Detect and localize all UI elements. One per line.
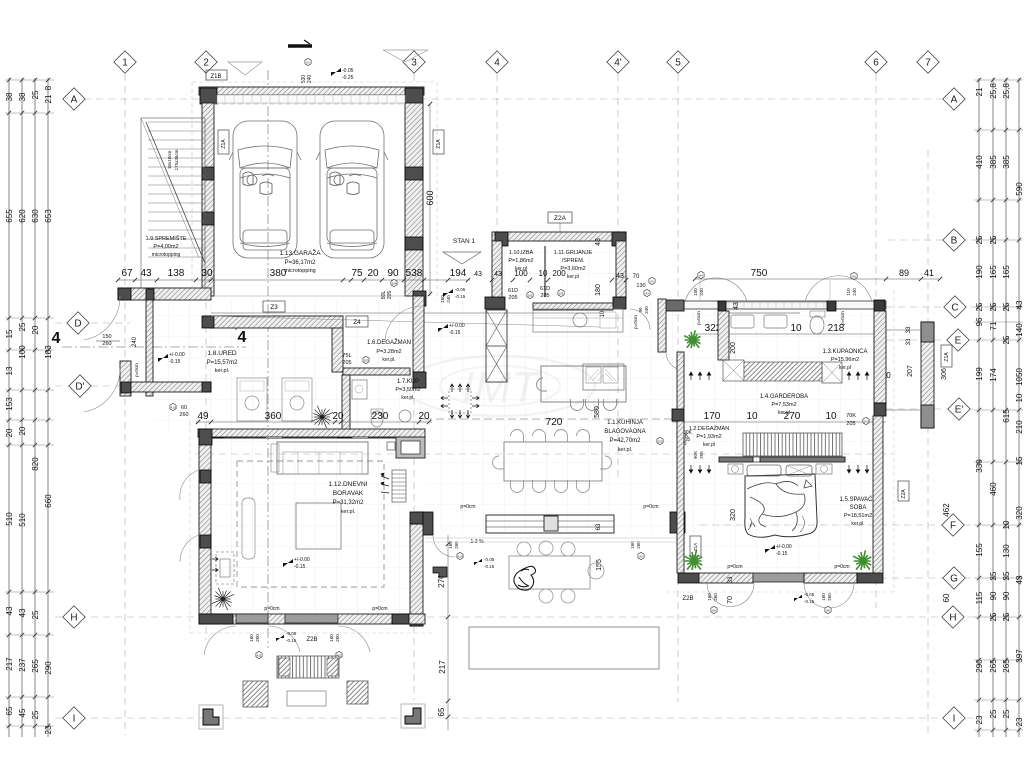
right dimension rail lines [978,78,980,737]
svg-text:20: 20 [5,428,14,437]
living south sills [236,614,268,623]
svg-text:10: 10 [746,411,758,422]
arrow burst symbol kitchen [449,389,471,413]
svg-text:90: 90 [638,307,643,313]
grid bubble B right [943,229,965,251]
svg-text:306: 306 [941,368,948,380]
hex A4 + dim [698,271,704,278]
svg-text:43: 43 [1015,575,1024,584]
svg-text:ker.pl.: ker.pl. [341,509,356,515]
svg-text:205: 205 [387,291,393,300]
svg-text:P=18,51m2: P=18,51m2 [844,513,872,519]
entry door arcs west [84,296,120,340]
garage top wall [199,87,424,95]
grid bubble I left [63,707,85,729]
right rail ticks [977,78,981,82]
pier kitchen SW [416,512,433,535]
svg-text:+/-0.00: +/-0.00 [169,352,185,358]
svg-text:20: 20 [18,426,27,435]
svg-text:460: 460 [989,482,998,496]
kitchen island [541,366,626,402]
svg-text:10: 10 [1015,393,1024,402]
svg-text:P=3,50m2: P=3,50m2 [395,387,420,393]
svg-text:43: 43 [733,302,740,310]
svg-text:160: 160 [329,634,334,642]
svg-text:Z4: Z4 [353,319,361,326]
svg-text:90: 90 [989,591,998,600]
svg-text:20: 20 [367,268,379,279]
svg-text:A8: A8 [826,608,830,612]
svg-text:I: I [73,714,76,725]
svg-text:+/-0.00: +/-0.00 [449,323,465,329]
svg-text:655: 655 [5,209,14,223]
svg-text:60: 60 [942,593,951,602]
svg-text:205: 205 [699,451,704,459]
svg-text:1050: 1050 [1015,368,1024,386]
west vertical wall upper [146,300,153,396]
grid bubble 5 [667,51,689,73]
svg-text:43: 43 [595,238,602,246]
svg-text:ker.pl: ker.pl [567,274,579,280]
grid bubble G right [943,567,965,589]
svg-text:SOBA: SOBA [850,505,867,511]
svg-text:I: I [953,714,956,725]
kitchen sink unit [583,364,624,390]
svg-text:1.3.KUPAONICA: 1.3.KUPAONICA [823,349,868,355]
svg-text:100: 100 [18,345,27,359]
label Z3 [263,301,285,312]
floor tiles ured wing [154,300,424,430]
svg-text:15: 15 [1015,456,1024,465]
svg-text:1.6.DEGAŽMAN: 1.6.DEGAŽMAN [367,338,411,346]
svg-text:160: 160 [821,593,826,601]
svg-text:270: 270 [784,411,801,422]
svg-text:630: 630 [31,209,40,223]
svg-text:A4: A4 [699,273,703,277]
svg-text:-0.05: -0.05 [286,631,297,636]
partition kup wall [343,368,410,375]
island stools bottom [571,399,584,411]
grid bubble 4 [486,51,508,73]
garage south wall [210,316,343,328]
door arc kitchen east [666,352,684,370]
dining chairs [511,430,524,442]
svg-text:240: 240 [132,336,138,347]
svg-text:38: 38 [5,92,14,101]
svg-text:61D: 61D [508,288,518,294]
scale bar mark [288,44,312,48]
desk 2 ured [282,378,312,421]
eave outline garage [192,81,437,83]
level flag living [283,559,293,567]
svg-text:237: 237 [18,658,27,672]
svg-text:202: 202 [657,439,662,443]
level flag ured [158,354,168,362]
svg-text:8: 8 [44,85,53,90]
svg-text:43: 43 [5,606,14,615]
svg-text:510: 510 [18,513,27,527]
svg-text:103: 103 [363,358,368,362]
svg-text:397: 397 [1015,649,1024,663]
svg-text:H: H [949,613,956,624]
svg-text:Z2B: Z2B [682,596,693,602]
svg-text:+/-0.00: +/-0.00 [776,544,792,550]
corner marker L left [199,705,223,729]
svg-text:-0.05: -0.05 [804,592,815,597]
wall below wardrobe [719,457,753,462]
svg-text:61D: 61D [540,286,550,292]
svg-text:4: 4 [494,58,500,69]
svg-text:410: 410 [975,155,984,169]
svg-text:660: 660 [44,494,53,508]
svg-text:130: 130 [1002,544,1011,558]
pier kitchen SE [670,512,685,533]
door arc terrace left [433,535,455,557]
level flag bedroom [765,545,775,553]
svg-text:D': D' [75,382,84,393]
arrow clusters vents [689,372,693,380]
svg-text:20: 20 [31,325,40,334]
ladder feature right [392,470,406,502]
svg-text:P=7,53m2: P=7,53m2 [771,402,796,408]
svg-text:25: 25 [31,710,40,719]
grid bubble E right [947,329,969,351]
svg-text:43: 43 [474,271,482,278]
svg-text:1.1.KUHINJA: 1.1.KUHINJA [607,420,643,426]
svg-text:Z3: Z3 [270,304,278,311]
stairs top-left [141,118,205,296]
svg-text:260: 260 [827,593,832,601]
garage top wall corner piers [200,88,217,104]
west entry south wall [131,382,211,392]
svg-text:-0.15: -0.15 [169,359,181,365]
svg-text:41: 41 [924,268,934,278]
svg-text:P=3,28m2: P=3,28m2 [376,349,401,355]
svg-text:380: 380 [270,268,287,279]
svg-text:P=4,00m2: P=4,00m2 [153,244,178,250]
dim row y=421 [196,421,432,423]
svg-text:265: 265 [31,659,40,673]
grid bubble E' right [948,398,970,420]
grid bubble H right [942,606,964,628]
outdoor chair left [243,681,268,707]
degazman wall vertical [677,352,684,409]
svg-text:199: 199 [975,367,984,381]
kup sink [399,410,411,422]
svg-text:microtopping: microtopping [152,252,181,258]
svg-text:ker.pl.: ker.pl. [401,395,414,401]
grid horizontal axis lines [84,98,942,100]
svg-text:A: A [951,95,958,106]
svg-text:290: 290 [44,661,53,675]
svg-text:175x36cm: 175x36cm [174,149,179,170]
svg-text:153: 153 [5,397,14,411]
grid bubble 7 [917,51,939,73]
svg-text:/SPREM.: /SPREM. [562,258,585,264]
svg-text:H: H [70,613,77,624]
dim 100 10 200 ticks [490,278,494,282]
svg-text:205: 205 [342,360,351,366]
door arc izba right [630,309,650,330]
svg-text:10: 10 [790,323,802,334]
svg-text:38: 38 [18,92,27,101]
dim row garderoba [672,421,886,423]
svg-text:218: 218 [828,323,845,334]
svg-text:ker.pl.: ker.pl. [215,368,230,374]
svg-text:30: 30 [201,268,213,279]
svg-text:Z1A: Z1A [221,139,227,149]
svg-text:BORAVAK: BORAVAK [333,490,364,497]
svg-text:-0.15: -0.15 [286,638,297,643]
svg-text:90: 90 [1002,591,1011,600]
svg-text:25,8: 25,8 [1002,83,1011,99]
grid bubble 6 [865,51,887,73]
svg-text:D: D [74,319,81,330]
dim line 720 [424,418,688,420]
terrace slab [469,627,659,669]
svg-text:155: 155 [975,543,984,557]
gable triangle over garage [228,62,262,75]
svg-text:174: 174 [989,368,998,382]
svg-text:265: 265 [989,659,998,673]
label Z4 [346,316,368,327]
svg-text:65: 65 [5,706,14,715]
svg-text:260: 260 [255,634,260,642]
grid bubble 3 [403,51,425,73]
closet X left [723,360,744,381]
svg-text:240: 240 [699,288,704,296]
svg-text:ker.pl.: ker.pl. [382,357,395,363]
living north wall [198,429,425,437]
svg-text:70K: 70K [846,413,856,419]
svg-text:170: 170 [704,411,721,422]
svg-text:-0.25: -0.25 [342,75,354,81]
svg-text:A: A [71,95,78,106]
svg-text:10: 10 [539,269,548,278]
svg-text:385: 385 [989,155,998,169]
svg-text:75L: 75L [342,353,351,359]
wardrobe bedroom [743,433,842,456]
svg-text:microtopping: microtopping [284,268,316,274]
svg-text:1.5.SPAVAĆA: 1.5.SPAVAĆA [839,496,876,503]
svg-text:63: 63 [596,523,602,530]
svg-text:p=0cm: p=0cm [460,504,475,510]
svg-text:3: 3 [411,58,417,69]
svg-text:4: 4 [52,330,61,347]
kitchen east wall [658,299,666,352]
label Z2A top [548,212,572,223]
plant black ured [311,406,333,428]
bedroom west wall [672,409,684,421]
svg-text:1.2.DEGAŽMAN: 1.2.DEGAŽMAN [689,424,729,432]
grid bubble 1 [114,51,136,73]
garderoba west wall [718,311,729,360]
svg-text:165: 165 [1002,265,1011,279]
svg-text:25: 25 [1002,709,1011,718]
svg-text:Z1A: Z1A [436,139,442,149]
svg-text:ker.pl: ker.pl [839,365,851,371]
floor tiles izba [503,246,615,301]
terrace dim line [447,535,449,730]
chaise left [242,498,255,559]
grid bubble D' left [69,375,91,397]
svg-text:43: 43 [140,268,152,279]
floor tiles living [212,438,410,614]
svg-text:385: 385 [1002,155,1011,169]
label Z2A right [898,481,909,501]
bed [728,464,743,474]
garage floor south edge [214,295,405,297]
floor tiles kitchen dining [425,300,683,533]
svg-text:Z1A: Z1A [693,543,698,551]
plant black living [212,588,234,610]
svg-text:G: G [950,574,958,585]
svg-text:25: 25 [18,322,27,331]
wall living-terrace [410,524,423,626]
svg-text:ker.pl.: ker.pl. [851,521,864,527]
living door arcs south [204,626,236,655]
closet hatched [744,362,822,381]
dining table [504,442,602,481]
svg-text:205: 205 [540,293,549,299]
svg-text:10: 10 [825,411,837,422]
svg-text:240: 240 [446,295,451,303]
kup shower [352,380,367,399]
label Z1A bedroom right [690,536,701,556]
grid vertical axis lines [124,74,126,735]
svg-text:33: 33 [906,326,912,333]
person figure sketch [514,566,536,590]
svg-text:7: 7 [925,58,931,69]
svg-text:160: 160 [440,295,445,303]
svg-text:-0.05: -0.05 [455,287,466,292]
svg-text:+/-0.00: +/-0.00 [294,557,310,563]
svg-text:25: 25 [989,709,998,718]
svg-text:A3: A3 [645,291,649,295]
svg-text:-0.15: -0.15 [455,294,466,299]
svg-text:4: 4 [238,329,247,346]
svg-text:A5: A5 [852,274,856,278]
island stool left [537,378,547,391]
svg-text:1.7.KUP: 1.7.KUP [397,379,419,385]
south glass wall frame [486,515,614,533]
svg-text:2: 2 [203,58,209,69]
svg-text:P=36,17m2: P=36,17m2 [285,260,317,266]
kup toilet [371,411,383,427]
svg-text:6: 6 [873,58,879,69]
svg-text:290: 290 [975,659,984,673]
svg-text:43: 43 [616,273,624,280]
bathroom north wall [684,301,886,309]
svg-text:110: 110 [846,288,851,296]
svg-text:200: 200 [552,269,566,278]
toilet bathroom [810,316,824,334]
svg-text:140: 140 [1015,323,1024,337]
storage south wall [118,288,211,300]
svg-text:67: 67 [121,268,133,279]
svg-text:15: 15 [5,329,14,338]
svg-text:E': E' [955,405,964,416]
svg-text:320: 320 [1015,506,1024,520]
svg-text:538: 538 [406,268,423,279]
svg-text:90: 90 [387,268,399,279]
svg-text:100: 100 [693,288,698,296]
corner marker L right [401,704,425,728]
svg-text:A2: A2 [650,279,654,283]
hex A9 [638,552,644,559]
svg-text:205: 205 [846,421,855,427]
svg-text:75: 75 [351,268,363,279]
plants bedroom [684,550,702,570]
svg-text:F: F [950,521,956,532]
svg-text:Z2A: Z2A [901,489,907,499]
sofa living [277,442,368,474]
svg-text:1: 1 [122,58,128,69]
plant kitchen [684,330,700,348]
dim row 750 [695,278,940,280]
svg-text:653: 653 [44,209,53,223]
dim row bathroom 322 [695,333,886,335]
svg-text:230: 230 [372,411,389,422]
svg-text:180: 180 [595,284,602,296]
grid bubble 2 [195,51,217,73]
svg-text:23: 23 [1015,717,1024,726]
left rail ticks [7,78,11,82]
svg-text:-0.05: -0.05 [342,68,354,74]
svg-text:43: 43 [494,271,502,278]
svg-text:1.4.GARDEROBA: 1.4.GARDEROBA [760,394,808,400]
label Z1A garage left [218,130,229,154]
desk 1 ured [237,378,267,421]
svg-text:240: 240 [644,306,649,314]
kitchen counter top [533,309,623,332]
svg-text:10: 10 [600,310,606,317]
left dimension rail lines [8,78,10,737]
svg-text:23: 23 [975,715,984,724]
svg-text:Z2A: Z2A [554,215,567,222]
grid bubble A right [943,88,965,110]
svg-text:43: 43 [1015,300,1024,309]
svg-text:320: 320 [730,509,737,521]
svg-text:A11: A11 [256,653,261,657]
svg-text:205: 205 [508,295,517,301]
bedroom east wall [873,416,883,573]
svg-text:1.11.GRIJANJE: 1.11.GRIJANJE [554,250,593,256]
svg-text:A10: A10 [457,554,463,558]
svg-text:200: 200 [730,342,737,354]
svg-text:155: 155 [596,559,603,571]
svg-text:260: 260 [179,412,188,418]
svg-text:70: 70 [727,596,734,604]
garage door swing dashed [214,103,405,105]
outdoor chairs [517,542,531,556]
svg-text:165: 165 [989,265,998,279]
svg-text:A9: A9 [639,554,643,558]
svg-text:P=1,93m2: P=1,93m2 [696,434,721,440]
svg-text:150: 150 [102,334,111,340]
izba partition [544,246,546,297]
svg-text:ker.pl: ker.pl [703,442,715,448]
svg-text:462: 462 [942,503,951,517]
svg-text:B: B [951,236,958,247]
svg-text:p=0cm: p=0cm [264,606,279,612]
svg-text:Z2B: Z2B [306,637,317,643]
svg-text:P=1,86m2: P=1,86m2 [508,258,533,264]
svg-text:101: 101 [527,293,532,297]
svg-text:1.13.GARAŽA: 1.13.GARAŽA [279,248,321,257]
grid bubble A left [63,88,85,110]
izba left wall [492,241,502,303]
